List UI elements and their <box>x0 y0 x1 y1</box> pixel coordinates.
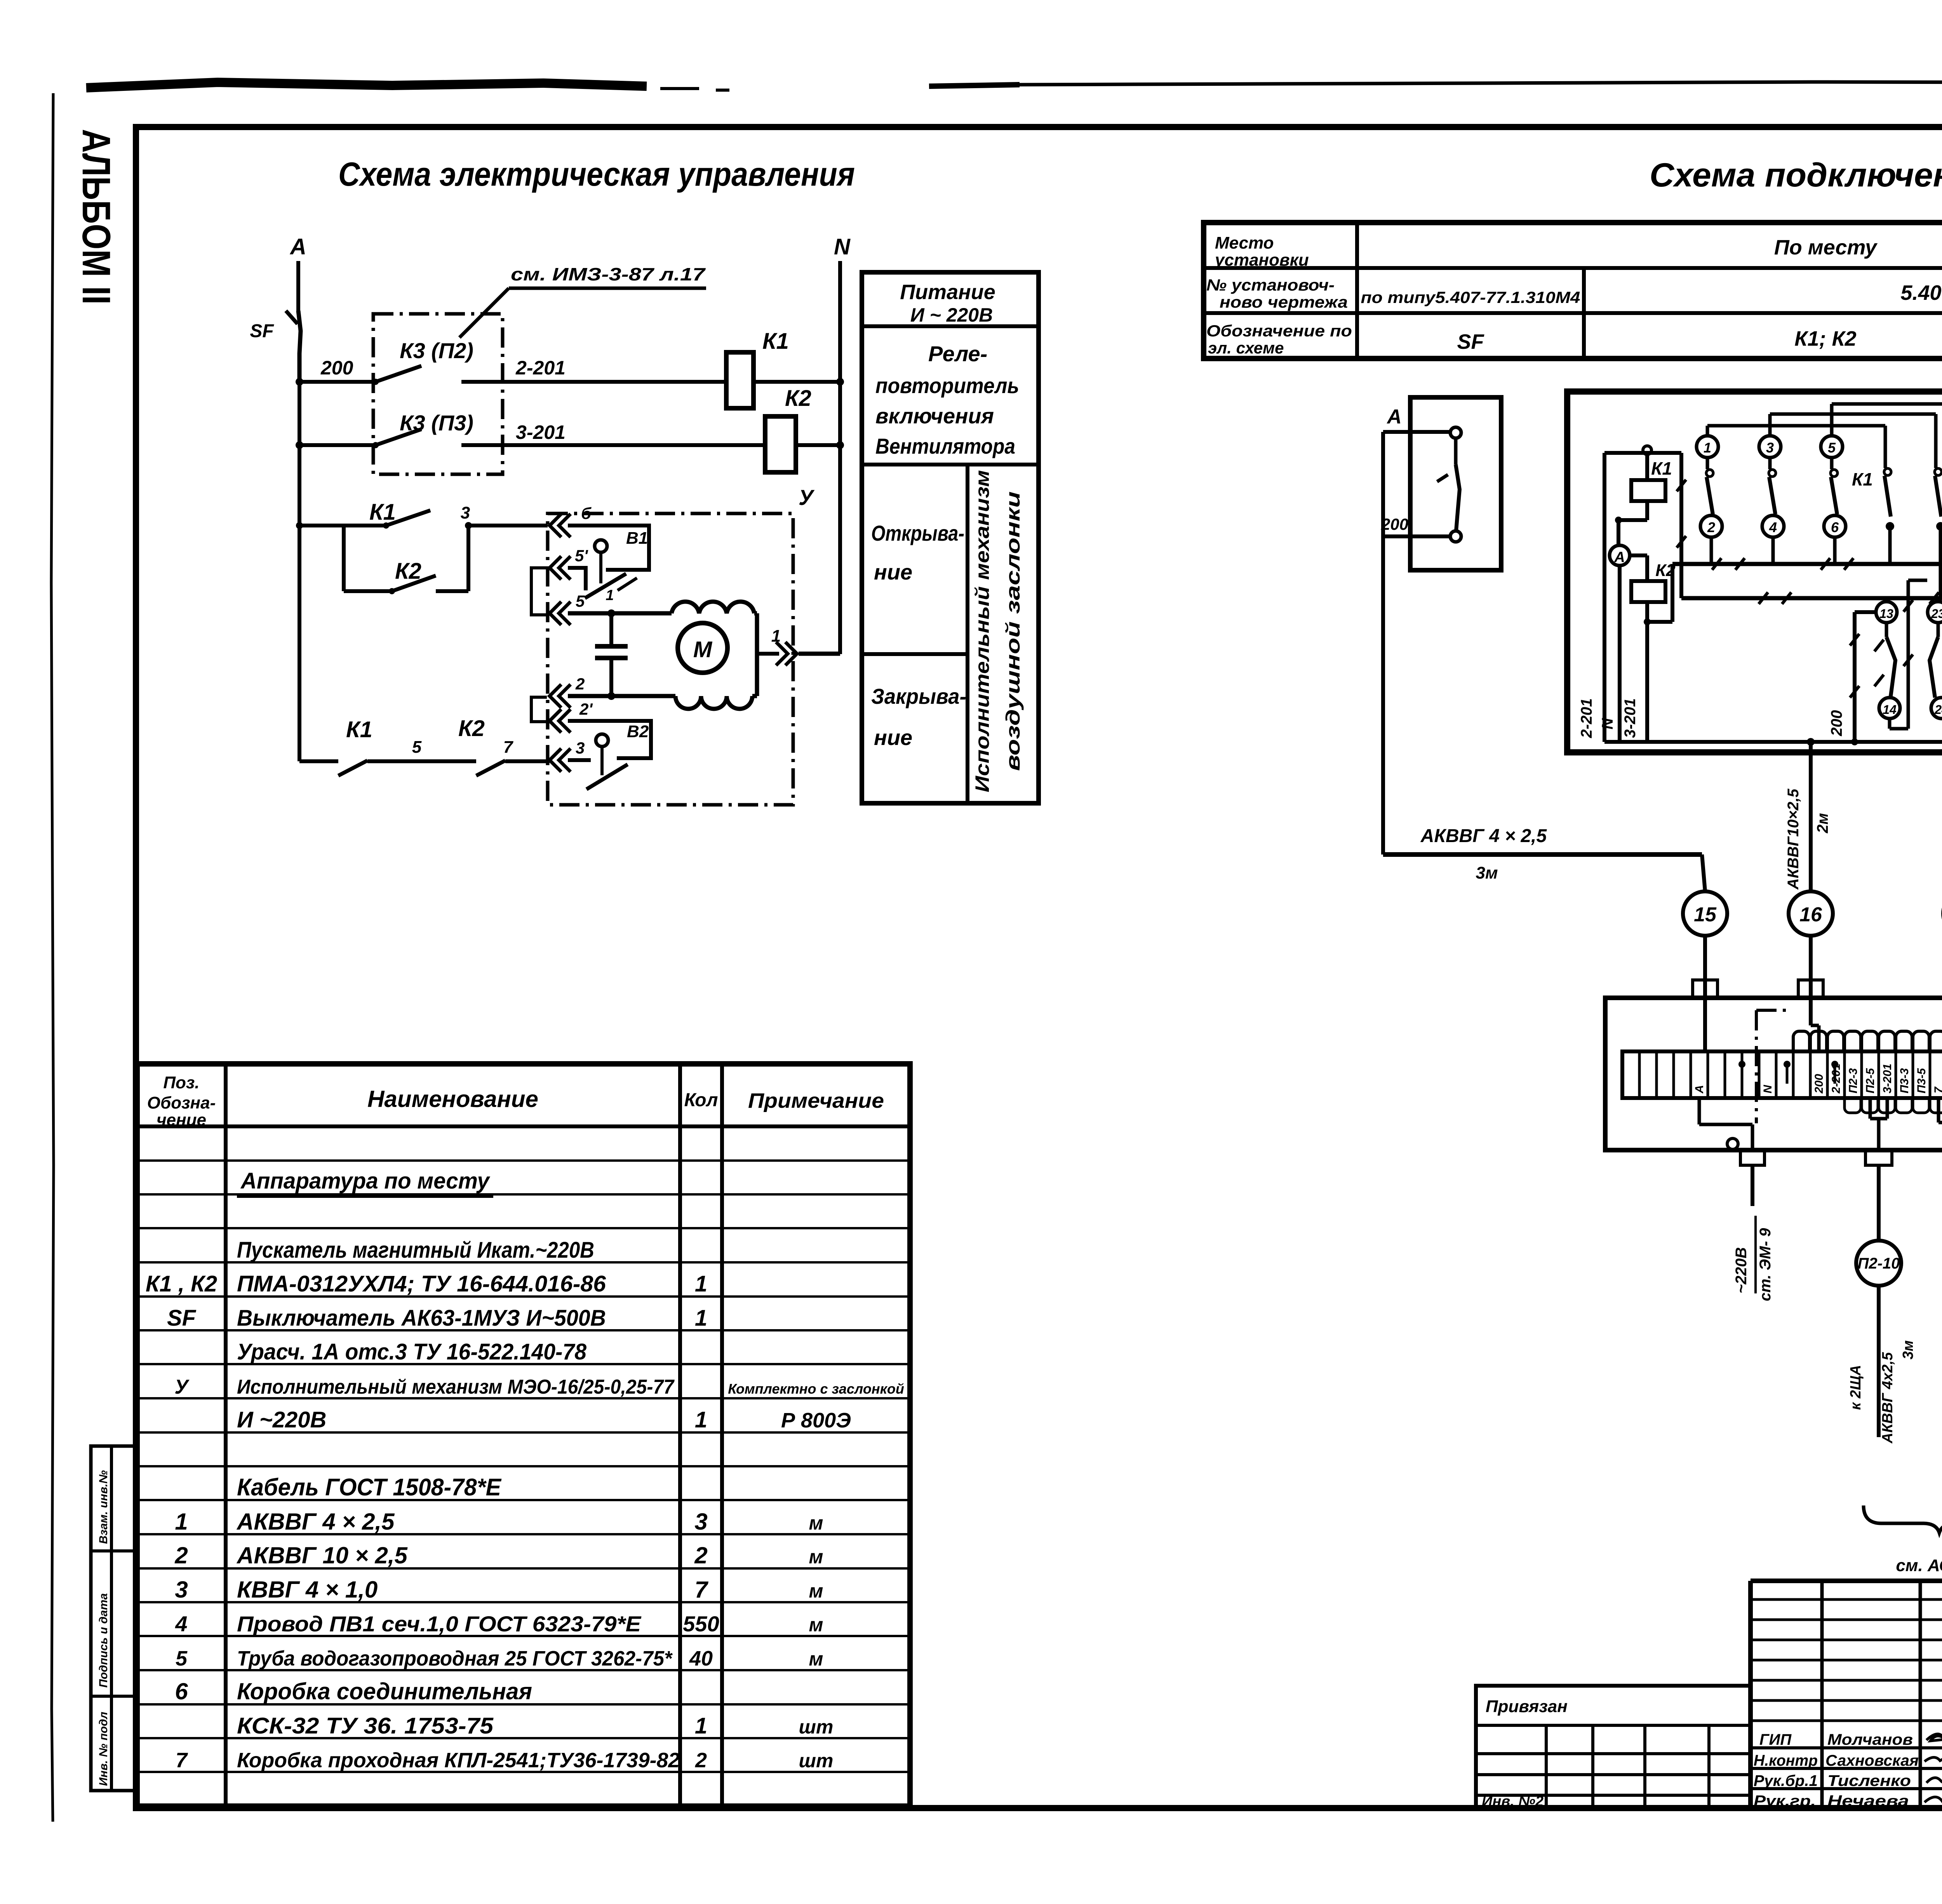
svg-text:Закрыва-: Закрыва- <box>871 684 966 708</box>
row: Кабель ГОСТ <box>237 1474 502 1501</box>
svg-text:3-201: 3-201 <box>1881 1063 1894 1093</box>
wire from А cell down <box>1699 1098 1752 1124</box>
svg-text:1: 1 <box>695 1713 707 1739</box>
svg-text:1: 1 <box>695 1271 707 1297</box>
svg-text:По месту: По месту <box>1774 236 1878 259</box>
open terminal on box bottom <box>1727 1138 1738 1149</box>
table row 1: Место установки <box>1214 233 1942 270</box>
svg-text:3м: 3м <box>1900 1340 1916 1359</box>
svg-text:5: 5 <box>412 738 422 757</box>
title block: change table grid <box>1751 1581 1942 1808</box>
svg-text:по типу5.407-77.1.310М4: по типу5.407-77.1.310М4 <box>1361 288 1580 306</box>
parts table header <box>147 1073 884 1130</box>
svg-text:К1: К1 <box>346 717 372 742</box>
contact column 4 (unnumbered) <box>1884 426 1894 564</box>
table row 3: Обозначение по эл. схеме <box>1206 322 1942 357</box>
legend vertical text Исполнительный механизм <box>971 470 993 792</box>
svg-text:Поз.: Поз. <box>163 1073 199 1092</box>
parallel contact K2 branch <box>344 526 468 594</box>
sheet top edge marks <box>86 82 1942 90</box>
brace см.АСТ-5 <box>1864 1505 1942 1575</box>
parts list table <box>137 1064 910 1806</box>
svg-text:Открыва-: Открыва- <box>871 521 964 545</box>
svg-text:15: 15 <box>1694 903 1717 926</box>
bus crossing ticks <box>1712 558 1942 604</box>
actuator boundary box У (dash-dot) <box>548 485 815 805</box>
sheet left edge line <box>51 93 54 1822</box>
row: SF Выключатель <box>167 1305 707 1331</box>
CK4 terminal strip <box>1622 1051 1942 1098</box>
wire line 4 (lower control circuit) <box>299 759 338 763</box>
svg-text:Схема подключений: Схема подключений <box>1650 157 1942 194</box>
legend vertical text воздушной заслонки <box>1002 491 1024 771</box>
svg-text:ново чертежа: ново чертежа <box>1220 293 1348 311</box>
svg-text:Р 800Э: Р 800Э <box>781 1409 851 1432</box>
svg-text:чение: чение <box>157 1110 206 1130</box>
svg-text:повторитель: повторитель <box>875 373 1019 398</box>
starter coil K1 (right) <box>1615 446 1672 524</box>
wire pin2 to motor lower <box>568 694 675 698</box>
svg-text:м: м <box>809 1614 823 1636</box>
svg-text:Исполнительный механизм МЭО-1: Исполнительный механизм МЭО-16/25-0,25-7… <box>237 1376 675 1398</box>
svg-text:установки: установки <box>1214 251 1309 270</box>
svg-text:Кабель ГОСТ 1508-78*Е: Кабель ГОСТ 1508-78*Е <box>237 1474 502 1501</box>
svg-text:5': 5' <box>575 546 588 565</box>
reference note см.ИМЗ-3-87 л.17 <box>459 264 706 338</box>
routing wire col5 <box>1832 398 1942 458</box>
row: И~220В <box>237 1407 851 1432</box>
contact K1 (line 3) <box>369 499 548 529</box>
svg-text:У: У <box>799 485 815 510</box>
svg-text:3-201: 3-201 <box>1622 698 1639 738</box>
node N <box>834 234 851 654</box>
album label АЛЬБОМ II <box>74 129 118 305</box>
svg-text:~220В: ~220В <box>1733 1247 1750 1293</box>
strip pin dots <box>1738 1061 1838 1084</box>
row: 6 Коробка соединительная <box>175 1678 532 1704</box>
row: 5 Труба <box>176 1647 823 1670</box>
middle bus 2 <box>1681 596 1942 600</box>
svg-text:3: 3 <box>461 503 470 522</box>
svg-text:1: 1 <box>606 587 614 604</box>
svg-text:К2: К2 <box>395 559 421 584</box>
svg-text:КСК-32 ТУ 36. 1753-75: КСК-32 ТУ 36. 1753-75 <box>237 1713 494 1739</box>
contactor coil K2 <box>765 386 811 472</box>
svg-text:N: N <box>1761 1084 1774 1093</box>
svg-text:Труба водогазопроводная 25 Г: Труба водогазопроводная 25 ГОСТ 3262-75* <box>237 1647 673 1670</box>
limit switch B1 block <box>568 526 649 604</box>
svg-text:П2-5: П2-5 <box>1864 1068 1877 1093</box>
contact column terminals 1/2 <box>1697 436 1722 564</box>
svg-text:К2: К2 <box>458 716 485 741</box>
margin label Взам.инв <box>97 1470 110 1544</box>
svg-text:м: м <box>809 1512 823 1534</box>
svg-text:3м: 3м <box>1476 863 1498 882</box>
cable circle 16 with riser <box>1785 742 1833 1051</box>
svg-text:2: 2 <box>575 675 585 693</box>
bottom bus of junction box <box>1604 721 1942 747</box>
wire N vertical with ammeter <box>1599 520 1630 742</box>
svg-text:5: 5 <box>1828 440 1836 456</box>
svg-text:Питание: Питание <box>900 280 995 304</box>
svg-text:2': 2' <box>579 700 593 718</box>
svg-text:ние: ние <box>874 725 912 750</box>
drop ~220В <box>1733 1124 1774 1301</box>
wire column via 4913 <box>1890 580 1927 729</box>
svg-text:м: м <box>809 1580 823 1602</box>
routing wire col1 <box>1707 426 1885 436</box>
svg-text:3: 3 <box>694 1509 707 1535</box>
svg-text:ст. ЭМ- 9: ст. ЭМ- 9 <box>1757 1228 1774 1301</box>
svg-text:7: 7 <box>1932 1086 1942 1093</box>
table row 2: № установочного чертежа <box>1206 276 1942 311</box>
node A label (right scheme) <box>1386 406 1402 428</box>
svg-text:550: 550 <box>683 1612 719 1636</box>
svg-text:1: 1 <box>695 1305 707 1331</box>
svg-text:воздушной заслонки: воздушной заслонки <box>1002 491 1024 771</box>
limit switch B2 block <box>568 721 651 789</box>
svg-text:200: 200 <box>320 357 353 379</box>
svg-text:6: 6 <box>1831 519 1839 535</box>
svg-text:Инв. №2: Инв. №2 <box>1482 1793 1544 1810</box>
svg-text:Комплектно с заслонкой: Комплектно с заслонкой <box>728 1381 904 1397</box>
routing wire col3 <box>1770 414 1936 436</box>
row: К1,К2 ПМА-0312УХЛ4 <box>146 1271 707 1297</box>
svg-text:В1: В1 <box>626 529 648 548</box>
svg-text:К2: К2 <box>785 386 811 411</box>
svg-text:2: 2 <box>1707 519 1715 535</box>
middle bus 1 <box>1672 562 1942 566</box>
svg-text:Обозна-: Обозна- <box>147 1093 216 1112</box>
legend box Питание <box>862 272 1039 803</box>
cable АКВВГ 4х2,5 <box>1383 826 1705 891</box>
svg-text:Схема электрическая управлен: Схема электрическая управления <box>338 156 855 193</box>
legend text Реле-повторитель <box>875 341 1019 458</box>
row: Урасч <box>237 1339 587 1364</box>
svg-text:Нечаева: Нечаева <box>1827 1793 1909 1810</box>
svg-text:1: 1 <box>175 1509 188 1535</box>
svg-text:шт: шт <box>799 1716 834 1738</box>
svg-text:2-201: 2-201 <box>1578 698 1595 738</box>
svg-text:Пускатель магнитный Икат.~220: Пускатель магнитный Икат.~220В <box>237 1237 594 1263</box>
svg-text:Аппаратура по месту: Аппаратура по месту <box>240 1168 491 1194</box>
svg-text:Молчанов: Молчанов <box>1827 1731 1913 1748</box>
svg-text:Примечание: Примечание <box>748 1089 884 1112</box>
dashed box around K3 contacts <box>373 314 503 474</box>
svg-text:2: 2 <box>174 1542 188 1568</box>
capacitor C <box>595 613 628 700</box>
row: Пускатель магнитный <box>237 1237 594 1263</box>
П2-10 cable labels <box>1848 1286 1916 1444</box>
svg-text:К3 (П3): К3 (П3) <box>400 411 473 435</box>
contact K2 (line 4) <box>458 716 550 776</box>
svg-text:13: 13 <box>1879 607 1893 621</box>
bus A vertical <box>296 357 353 761</box>
strip tabs above <box>1793 1031 1942 1051</box>
svg-text:Провод ПВ1 сеч.1,0 ГОСТ 6323: Провод ПВ1 сеч.1,0 ГОСТ 6323-79*Е <box>237 1612 642 1636</box>
node A (phase bus label) <box>289 234 306 313</box>
svg-text:И ~220В: И ~220В <box>237 1407 326 1432</box>
svg-text:1: 1 <box>1704 440 1711 456</box>
svg-text:Рук.гр.: Рук.гр. <box>1754 1793 1816 1810</box>
wire 3-201 (line 2) <box>299 421 844 449</box>
lower contact column 23/24 <box>1928 602 1942 719</box>
svg-text:К3 (П2): К3 (П2) <box>400 338 473 363</box>
contact K1 (line 4) <box>338 717 476 776</box>
svg-text:23: 23 <box>1931 607 1942 621</box>
margin label Инв № подл <box>97 1712 110 1786</box>
svg-text:ПМА-0312УХЛ4; ТУ 16-644.016-: ПМА-0312УХЛ4; ТУ 16-644.016-86 <box>237 1271 606 1297</box>
svg-text:П2-10: П2-10 <box>1858 1255 1900 1272</box>
row: У Исполнительный механизм <box>174 1376 904 1398</box>
svg-text:к ЩКК: к ЩКК <box>1940 822 1942 870</box>
wire 3-201 vertical <box>1622 622 1647 742</box>
row: 4 Провод ПВ1 <box>175 1612 823 1636</box>
breaker SF <box>250 311 301 382</box>
svg-text:включения: включения <box>875 404 994 428</box>
svg-text:У: У <box>174 1376 190 1398</box>
svg-text:Инв. № подл: Инв. № подл <box>97 1712 110 1786</box>
svg-text:40: 40 <box>689 1647 713 1670</box>
svg-text:200: 200 <box>1813 1074 1825 1094</box>
svg-text:П3-5: П3-5 <box>1915 1068 1928 1093</box>
svg-text:Кол: Кол <box>684 1090 718 1110</box>
row: 1 АКВВГ 4х2,5 <box>175 1509 823 1535</box>
wire pin5 to motor <box>568 609 672 617</box>
svg-text:см. АСТ-5: см. АСТ-5 <box>1896 1556 1942 1575</box>
svg-text:Место: Место <box>1215 233 1274 252</box>
strip tabs below <box>1845 1098 1942 1113</box>
feeder to middle bus <box>1647 453 1686 622</box>
title: Схема подключений <box>1650 157 1942 194</box>
svg-text:6: 6 <box>175 1678 188 1704</box>
svg-text:АКВВГ10×2,5: АКВВГ10×2,5 <box>1785 788 1802 890</box>
svg-text:4: 4 <box>175 1612 187 1636</box>
svg-text:Выключатель АК63-1МУЗ И~50: Выключатель АК63-1МУЗ И~500В <box>237 1305 606 1331</box>
svg-text:N: N <box>834 234 851 259</box>
svg-text:3: 3 <box>576 739 585 757</box>
svg-text:3: 3 <box>175 1577 188 1603</box>
svg-text:Коробка проходная КПЛ-2541;: Коробка проходная КПЛ-2541;ТУ36-1739-82 <box>237 1749 680 1772</box>
legend text Питание И~220В <box>900 280 995 326</box>
svg-text:N: N <box>1599 718 1616 729</box>
contactor coil K1 <box>726 329 789 408</box>
svg-text:ГИП: ГИП <box>1759 1731 1792 1748</box>
svg-text:7: 7 <box>694 1577 708 1603</box>
svg-text:П2-3: П2-3 <box>1847 1068 1860 1093</box>
svg-text:Привязан: Привязан <box>1486 1697 1568 1716</box>
connector pin 3 <box>550 739 585 772</box>
motor M with windings <box>672 602 757 709</box>
svg-text:Подпись и дата: Подпись и дата <box>97 1593 110 1688</box>
svg-text:м: м <box>809 1546 823 1568</box>
margin label Подпись и дата <box>97 1593 110 1688</box>
svg-text:см. ИМЗ-3-87 л.17: см. ИМЗ-3-87 л.17 <box>511 264 706 284</box>
svg-text:А: А <box>1386 406 1402 428</box>
circle П2-10 <box>1856 1241 1901 1286</box>
row: КСК-32 <box>237 1713 833 1739</box>
connector pin 2' <box>550 700 593 733</box>
connection box СК4 <box>1605 950 1942 1150</box>
svg-text:Н.контр: Н.контр <box>1754 1752 1818 1769</box>
svg-text:2м: 2м <box>1814 813 1831 834</box>
lower contact column 13/14 <box>1874 602 1900 719</box>
legend text Закрывание <box>871 684 966 750</box>
svg-text:П3-3: П3-3 <box>1898 1068 1911 1093</box>
legend text Открывание <box>871 521 964 584</box>
svg-text:А: А <box>1614 549 1625 566</box>
box entry stubs top <box>1693 980 1942 998</box>
svg-text:3: 3 <box>1766 440 1774 456</box>
row: 2 АКВВГ 10х2,5 <box>174 1542 823 1568</box>
cable circle 15 <box>1683 891 1727 1051</box>
svg-text:24: 24 <box>1934 703 1942 717</box>
svg-text:ние: ние <box>874 560 912 584</box>
svg-text:Реле-: Реле- <box>928 341 987 366</box>
margin stamp boxes <box>91 1446 136 1791</box>
svg-text:Коробка соединительная: Коробка соединительная <box>237 1678 532 1704</box>
cable drop from SF <box>1381 432 1385 855</box>
svg-text:2: 2 <box>694 1542 707 1568</box>
svg-text:АКВВГ 4 × 2,5: АКВВГ 4 × 2,5 <box>236 1509 395 1535</box>
svg-text:5: 5 <box>176 1647 188 1670</box>
connector bracket 5'/5 <box>531 568 547 615</box>
cable circle 17 with riser к ЩКК <box>1940 787 1942 1051</box>
connector pin 2 <box>550 675 585 708</box>
svg-text:б: б <box>581 504 592 522</box>
svg-text:К1: К1 <box>762 329 789 354</box>
drop to П2-10 <box>1865 1098 1892 1241</box>
svg-text:К1: К1 <box>369 499 396 525</box>
svg-text:М: М <box>693 637 713 662</box>
svg-text:14: 14 <box>1883 703 1897 717</box>
svg-text:А: А <box>1693 1085 1706 1094</box>
svg-text:В2: В2 <box>627 722 649 741</box>
svg-text:Сахновская: Сахновская <box>1825 1752 1919 1769</box>
svg-text:АКВВГ 4 × 2,5: АКВВГ 4 × 2,5 <box>1420 826 1547 846</box>
svg-text:1: 1 <box>695 1407 707 1432</box>
wire 2-201 vertical <box>1578 453 1681 742</box>
svg-text:2-201: 2-201 <box>515 357 566 379</box>
signatures <box>1754 1731 1942 1810</box>
svg-text:И ~ 220В: И ~ 220В <box>910 304 993 326</box>
row: Аппаратура по месту <box>237 1168 493 1196</box>
starter coil K2 (right) <box>1630 555 1676 625</box>
svg-text:К1; К2: К1; К2 <box>1794 327 1856 350</box>
svg-text:шт: шт <box>799 1750 834 1772</box>
svg-text:А: А <box>289 234 306 259</box>
svg-text:К1: К1 <box>1651 458 1672 479</box>
connector pin 5' <box>550 546 588 580</box>
svg-text:SF: SF <box>250 321 274 341</box>
svg-text:5.407-21: 5.407-21 <box>1900 281 1942 305</box>
svg-text:Обозначение по: Обозначение по <box>1206 322 1352 340</box>
wire 200 vertical <box>1828 612 1876 742</box>
SF contact and blade <box>1381 427 1461 542</box>
title block: привязан section <box>1476 1686 1751 1810</box>
svg-text:7: 7 <box>503 738 514 757</box>
svg-text:3-201: 3-201 <box>516 421 566 443</box>
svg-text:16: 16 <box>1799 903 1822 926</box>
connector bracket 2/2' <box>531 697 547 722</box>
svg-text:SF: SF <box>1457 330 1484 353</box>
contact column terminals 5/6 (K1) <box>1821 436 1873 564</box>
svg-text:2: 2 <box>695 1749 707 1772</box>
svg-text:эл. схеме: эл. схеме <box>1208 339 1284 357</box>
contact column 5 (unnumbered, K2) <box>1935 414 1942 598</box>
connector pin б <box>550 504 592 537</box>
svg-text:Взам. инв.№: Взам. инв.№ <box>97 1470 110 1544</box>
svg-text:Наименование: Наименование <box>367 1086 538 1112</box>
svg-text:Тисленко: Тисленко <box>1827 1772 1911 1789</box>
row: 3 КВВГ 4х1,0 <box>175 1577 823 1603</box>
contact K3 (П2) <box>400 338 473 363</box>
svg-text:Вентилятора: Вентилятора <box>875 434 1015 458</box>
svg-text:АЛЬБОМ II: АЛЬБОМ II <box>74 129 118 305</box>
svg-text:4: 4 <box>1769 519 1777 535</box>
wire line 3 (self-holding circuit) <box>296 522 386 529</box>
svg-text:SF: SF <box>167 1305 197 1331</box>
svg-text:Урасч. 1А отс.3 ТУ 16-522: Урасч. 1А отс.3 ТУ 16-522.140-78 <box>237 1339 587 1364</box>
svg-text:5: 5 <box>576 592 585 610</box>
svg-text:К1 , К2: К1 , К2 <box>146 1271 217 1297</box>
contact K3 (П3) <box>400 411 473 435</box>
location table <box>1204 223 1942 359</box>
drop to П3-10 and 19 <box>1939 1098 1942 1241</box>
svg-text:200: 200 <box>1828 710 1845 736</box>
svg-text:Исполнительный механизм: Исполнительный механизм <box>971 470 993 792</box>
junction box (magnetic starters) <box>1567 392 1942 752</box>
svg-text:КВВГ 4 × 1,0: КВВГ 4 × 1,0 <box>237 1577 378 1603</box>
svg-text:Рук.бр.1: Рук.бр.1 <box>1754 1772 1818 1789</box>
motor lead 1 with connector <box>757 627 840 665</box>
internal dash-dot fragment <box>1756 1010 1787 1123</box>
switch SF enclosure <box>1410 397 1501 570</box>
wire 2-201 (line 1) <box>299 357 844 386</box>
svg-text:№ установоч-: № установоч- <box>1206 276 1335 294</box>
connector pin 5 <box>550 592 585 625</box>
title: Схема электрическая управления <box>338 156 855 193</box>
row: 7 Коробка проходная <box>176 1749 833 1772</box>
svg-text:АКВВГ 10 × 2,5: АКВВГ 10 × 2,5 <box>236 1542 408 1568</box>
svg-text:АКВВГ 4х2,5: АКВВГ 4х2,5 <box>1879 1352 1896 1444</box>
contact column terminals 3/4 <box>1759 436 1784 564</box>
svg-text:м: м <box>809 1648 823 1670</box>
svg-text:7: 7 <box>176 1749 188 1772</box>
svg-text:К1: К1 <box>1852 469 1873 489</box>
svg-text:к 2ЩА: к 2ЩА <box>1848 1365 1864 1410</box>
